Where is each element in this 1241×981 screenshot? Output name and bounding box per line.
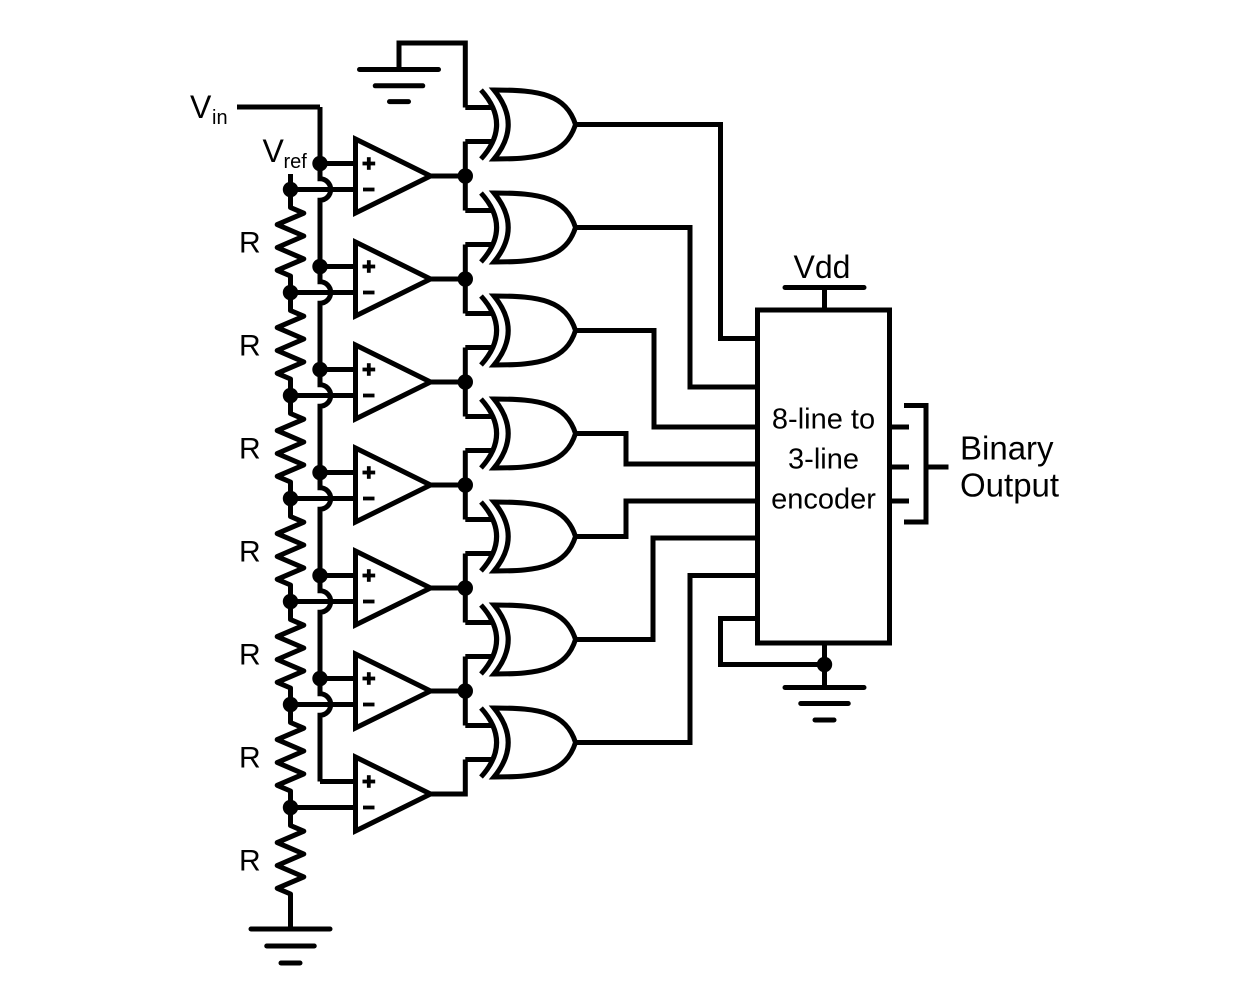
- svg-text:R: R: [239, 844, 261, 877]
- svg-text:Output: Output: [960, 467, 1059, 504]
- svg-text:R: R: [239, 432, 261, 465]
- svg-text:3-line: 3-line: [788, 444, 859, 476]
- svg-text:ref: ref: [284, 151, 308, 173]
- svg-text:R: R: [239, 638, 261, 671]
- svg-text:R: R: [239, 226, 261, 259]
- svg-text:R: R: [239, 535, 261, 568]
- svg-text:encoder: encoder: [771, 484, 876, 516]
- svg-text:V: V: [263, 133, 285, 169]
- svg-text:V: V: [190, 89, 212, 125]
- svg-text:Vdd: Vdd: [794, 249, 851, 285]
- svg-text:8-line to: 8-line to: [772, 404, 875, 436]
- svg-text:R: R: [239, 741, 261, 774]
- svg-text:in: in: [212, 107, 228, 129]
- svg-text:Binary: Binary: [960, 430, 1054, 467]
- svg-text:R: R: [239, 329, 261, 362]
